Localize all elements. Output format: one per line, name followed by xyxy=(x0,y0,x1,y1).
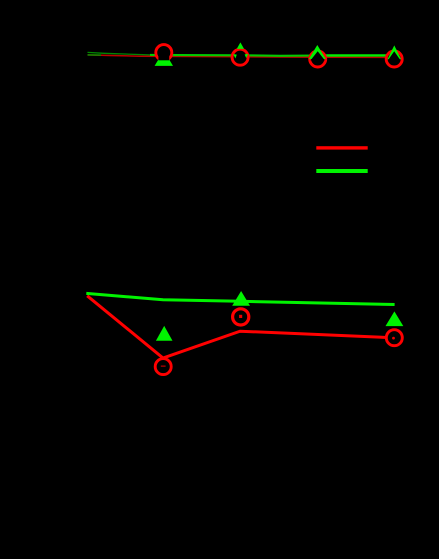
top marker group 3 xyxy=(310,47,326,68)
top chart red line xyxy=(88,55,395,58)
top chart green line left faint xyxy=(88,52,151,55)
legend red sample xyxy=(316,146,367,149)
bottom triangle 3 xyxy=(387,313,402,325)
top marker group 4 xyxy=(386,47,402,67)
bottom triangle 1 xyxy=(156,326,173,341)
bottom triangle 2 xyxy=(234,293,249,305)
bottom circle 3 xyxy=(386,330,402,346)
bottom circle 1 xyxy=(155,359,171,375)
top marker group 2 xyxy=(232,43,248,65)
bottom chart green line xyxy=(86,293,394,304)
top chart green line main xyxy=(150,54,318,57)
bottom circle 2 xyxy=(233,309,249,325)
top marker group 1 xyxy=(156,45,172,66)
top chart green line start cover xyxy=(88,54,102,56)
bottom chart red line xyxy=(87,296,394,358)
legend green sample xyxy=(316,169,367,173)
